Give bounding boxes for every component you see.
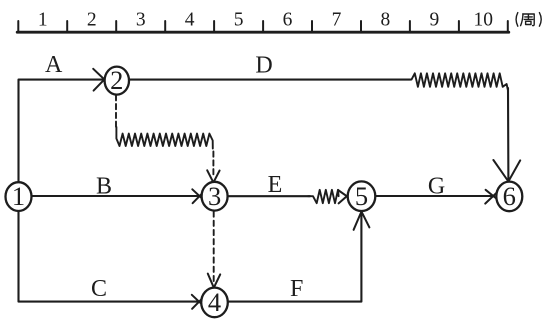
svg-text:G: G — [428, 173, 445, 199]
wire: node2 right horizontal (activity D) — [130, 79, 411, 81]
svg-text:1: 1 — [12, 181, 25, 211]
arrowhead into node 6 top — [493, 160, 508, 182]
svg-text:8: 8 — [381, 9, 391, 30]
arrowhead into node 4 top — [208, 274, 214, 288]
free-float zigzag on E — [308, 190, 339, 203]
wire: node3 right (activity E) — [228, 195, 310, 197]
svg-text:4: 4 — [185, 9, 195, 30]
arrowhead into node 3 top — [207, 170, 213, 182]
svg-text:2: 2 — [87, 9, 97, 30]
wire: node5 to node6 (activity G) — [376, 195, 494, 197]
arrowhead into node 5 — [338, 190, 351, 199]
svg-text:2: 2 — [110, 65, 123, 95]
node 4 — [201, 288, 228, 318]
svg-text:3: 3 — [208, 181, 221, 211]
svg-text:5: 5 — [234, 9, 244, 30]
svg-text:6: 6 — [503, 181, 516, 211]
scale unit label (周) — [516, 13, 541, 27]
svg-text:F: F — [290, 276, 303, 302]
svg-text:B: B — [96, 173, 112, 199]
svg-text:7: 7 — [332, 9, 342, 30]
node 2 — [105, 67, 129, 95]
wire: node1 down-left corner to node4 (activity C path) — [19, 211, 199, 302]
wire: node4 right then up to node5 (activity F path) — [228, 214, 361, 302]
arrowhead into node 3 — [192, 189, 203, 199]
svg-text:A: A — [45, 52, 63, 78]
dashed dummy: node2 down — [115, 95, 117, 128]
node 6 — [496, 182, 522, 212]
node 5 — [348, 181, 376, 211]
wire: node1 up-left corner to node2 (activity A path) — [19, 80, 103, 183]
free-float zigzag below node2 — [116, 127, 212, 149]
svg-text:10: 10 — [474, 9, 494, 30]
svg-text:4: 4 — [208, 287, 221, 317]
svg-text:E: E — [268, 172, 283, 198]
svg-text:5: 5 — [355, 181, 368, 211]
wire: vertical down to node 6 — [507, 88, 509, 181]
svg-text:6: 6 — [283, 9, 293, 30]
arrowhead into node 4 — [192, 295, 203, 305]
dashed dummy: node3 down to node4 — [213, 212, 215, 282]
arrowhead into node 6 — [486, 190, 498, 200]
node 1 — [6, 182, 32, 211]
svg-text:C: C — [91, 276, 107, 302]
arrowhead into node 5 bottom — [354, 212, 362, 230]
svg-text:1: 1 — [38, 9, 48, 30]
scale ticks — [17, 21, 19, 32]
svg-text:3: 3 — [136, 9, 146, 30]
time scale baseline — [17, 31, 509, 34]
node 3 — [202, 182, 228, 211]
arrowhead into node 2 — [93, 69, 105, 81]
wire: node1 to node3 (activity B) — [32, 195, 199, 197]
dashed dummy: down into node3 — [212, 152, 214, 177]
svg-text:D: D — [255, 53, 272, 79]
svg-text:9: 9 — [430, 9, 440, 30]
free-float zigzag on D — [409, 73, 508, 90]
